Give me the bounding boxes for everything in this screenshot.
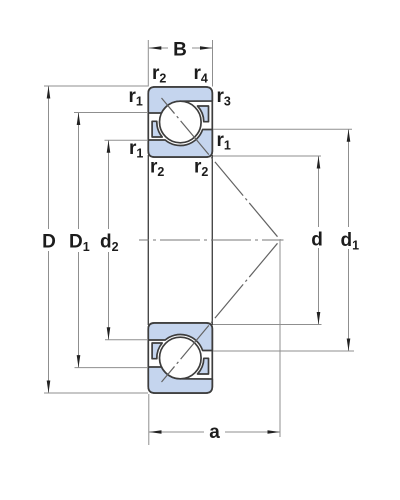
arrowhead d1 up: [347, 129, 351, 142]
arrowhead d up: [317, 156, 321, 169]
bearing right face line between sections: [211, 155, 213, 325]
arrowhead d2 down: [107, 327, 111, 340]
extension line apex vertical: [279, 240, 281, 437]
silhouette of top section: [148, 87, 212, 157]
dimension line D: [48, 86, 50, 229]
arrowhead D1 down: [77, 355, 81, 368]
silhouette of bottom section: [148, 323, 212, 393]
dimension line d1: [348, 129, 350, 227]
extension line d top: [213, 155, 321, 157]
dimension line d: [318, 156, 320, 227]
svg-text:D: D: [42, 232, 56, 253]
arrowhead a right: [268, 430, 281, 434]
extension line d1 top: [213, 128, 352, 130]
bearing outer faces: left face line between sections: [147, 155, 149, 325]
ball (bottom): [160, 337, 202, 379]
extension line left face above bearing: [147, 40, 149, 87]
extension line D bottom: [44, 392, 148, 394]
arrowhead B right: [200, 46, 213, 50]
outer ring (bottom, blue): [148, 367, 212, 393]
arrowhead D down: [47, 381, 51, 394]
extension line D1 top: [74, 112, 148, 114]
horizontal centerline: [139, 239, 284, 241]
contact angle line (bottom section to apex): [162, 240, 281, 382]
arrowhead D1 up: [77, 113, 81, 126]
svg-text:d: d: [311, 230, 323, 251]
extension line right face above bearing: [212, 40, 214, 87]
inner ring (bottom section, blue): [148, 323, 212, 351]
inner ring (bottom, blue): [148, 130, 212, 158]
top bearing section: [148, 87, 212, 157]
dimension line D1: [78, 113, 80, 230]
extension line d bottom: [213, 324, 322, 326]
dimension line d2: [108, 140, 110, 229]
ball (top): [160, 101, 202, 143]
dimension line B: [149, 47, 168, 49]
inner ring left shoulder land: [152, 121, 162, 137]
bottom bearing section (mirror): [148, 323, 212, 393]
arrowhead D up: [47, 86, 51, 99]
arrowhead B left: [149, 46, 162, 50]
arrowhead a left: [149, 430, 162, 434]
extension line left face below bearing: [148, 394, 150, 445]
arrowhead d down: [317, 312, 321, 325]
outer ring shoulder land (bottom section): [198, 358, 209, 374]
extension line D1 bottom: [75, 367, 149, 369]
extension line D top: [44, 85, 148, 87]
svg-text:a: a: [209, 422, 220, 443]
outer ring (top, blue): [148, 87, 212, 113]
outer ring right shoulder land: [198, 106, 209, 122]
extension line d1 bottom: [213, 350, 354, 352]
extension line d2 bottom: [105, 339, 148, 341]
dimension line a: [149, 431, 204, 433]
svg-text:B: B: [173, 40, 187, 61]
inner ring shoulder land (bottom section): [152, 343, 162, 359]
arrowhead d1 down: [347, 339, 351, 352]
contact angle line (top section to apex): [162, 98, 281, 240]
arrowhead d2 up: [107, 140, 111, 153]
extension line d2 top: [105, 139, 149, 141]
